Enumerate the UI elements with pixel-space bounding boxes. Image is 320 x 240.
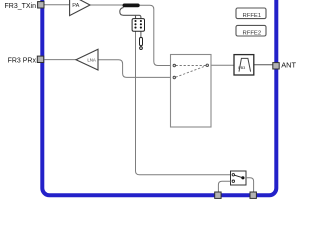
wire SPDT common to port GND2 [246,178,254,193]
switch pin TX [173,64,176,67]
PA amplifier U1 [70,0,90,16]
wire tuner to shunt element [140,31,142,37]
shunt element (capsule) [140,37,143,45]
switch pin common [206,64,209,67]
wire loop stub left into tuner box [135,15,137,18]
wire PA out to balun [90,4,123,6]
switch pin RX [173,76,176,79]
tuner internal rails [136,19,141,31]
antenna filter FB3 [234,55,254,75]
svg-text:PA: PA [72,3,79,9]
SPDT pole pin [232,174,234,176]
module outline (blue rounded rect, top cut off) [42,0,276,195]
port FR3 PRx [37,56,43,62]
wire balun secondary loop [120,7,141,18]
SPDT common dot [241,176,244,179]
wire tuner to bottom SPDT (long net) [136,31,231,175]
svg-text:RFFE1: RFFE1 [242,13,261,19]
svg-text:FR3 PRx: FR3 PRx [8,57,37,64]
port bottom right [250,192,256,198]
bump (small circle) [140,47,143,50]
tuner box (programmable element) [132,19,144,32]
SPDT blade [235,175,243,178]
svg-text:ANT: ANT [281,61,296,70]
wire LNA input to switch (RX line) [98,60,174,78]
LNA amplifier U2 [76,49,98,70]
tuner contact dots [134,20,136,22]
wire switch to filter [207,64,234,66]
switch throw dashed (RX) [176,66,206,77]
wire shunt element to bump [140,46,142,47]
wire balun to switch (TX line) [140,5,175,65]
RFFE2 box [236,25,266,36]
svg-text:RFFE2: RFFE2 [242,31,261,37]
RFFE1 box [236,8,266,19]
SPDT throw pin [232,180,234,182]
svg-text:FR3_TXin: FR3_TXin [4,3,36,10]
balun primary (solid bar) [123,4,140,8]
svg-text:FB3: FB3 [238,66,245,70]
wire port FR3 PRx to LNA output [44,59,76,61]
wire filter to ANT port [254,64,274,66]
bottom SPDT switch box [231,171,247,185]
main T/R switch box [171,55,212,128]
port FR3_TXin [38,2,44,8]
wire SPDT throw to port GND1 [218,181,230,192]
port ANT [273,63,279,69]
switch throw dashed (TX) [176,65,206,67]
svg-text:LNA: LNA [87,57,96,62]
port bottom left [215,192,221,198]
wire port FR3_TXin to PA [44,4,69,6]
